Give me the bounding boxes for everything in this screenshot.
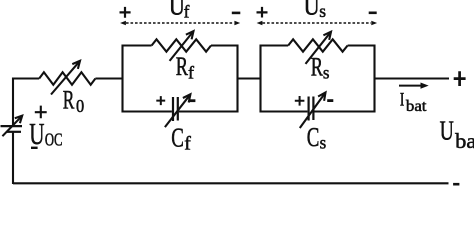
plus sign Us (257, 7, 268, 18)
plus sign Uoc (35, 106, 47, 119)
current arrow Ibat (399, 85, 424, 87)
wire: main horizontal left segment (13, 77, 39, 79)
svg-text:OC: OC (45, 129, 63, 149)
svg-text:C: C (307, 122, 320, 152)
plus sign Cs (295, 96, 305, 106)
svg-text:f: f (184, 134, 191, 155)
capacitor Cs plates (309, 97, 314, 121)
node: box1 frame (Rf/Cf parallel) (123, 46, 238, 112)
svg-text:f: f (188, 62, 194, 82)
plus sign output (454, 71, 466, 86)
svg-text:f: f (184, 1, 190, 21)
svg-text:U: U (304, 0, 320, 20)
svg-text:R: R (176, 52, 189, 81)
svg-text:I: I (400, 90, 404, 111)
minus sign Uf (232, 12, 241, 15)
svg-text:bat: bat (455, 129, 474, 153)
svg-text:s: s (320, 133, 327, 153)
minus sign Us (369, 12, 377, 15)
svg-text:C: C (171, 123, 184, 153)
node: box2 frame (Rs/Cs parallel) (261, 46, 375, 112)
source Uoc plate short (7, 131, 21, 133)
minus sign bottom right (453, 183, 459, 186)
capacitor Cf variable arrow (165, 94, 191, 127)
svg-text:bat: bat (406, 98, 427, 115)
wire: R0 to box1 (95, 77, 123, 79)
wire: box2 to output (375, 77, 450, 79)
dashed voltage arrow Us (263, 22, 372, 24)
svg-text:s: s (323, 63, 330, 83)
dashed voltage arrow Uf (126, 22, 234, 24)
resistor R0 variable arrow (51, 61, 80, 95)
resistor Rs variable arrow (306, 32, 332, 64)
svg-text:R: R (63, 85, 75, 114)
plus sign Cf (156, 96, 165, 105)
plus sign Uf (120, 7, 131, 18)
svg-text:R: R (311, 52, 324, 81)
source Uoc plate long (1, 125, 23, 127)
resistor R0 zigzag (39, 72, 95, 84)
svg-text:s: s (319, 1, 326, 21)
svg-text:U: U (29, 116, 44, 151)
minus sign Cf (189, 99, 195, 102)
resistor Rs zigzag (288, 39, 347, 51)
wire: left vertical branch (12, 78, 14, 126)
source Uoc variable arrow (2, 116, 22, 137)
capacitor Cf plates (173, 97, 178, 121)
minus sign Uoc (31, 147, 38, 149)
svg-text:U: U (440, 115, 454, 146)
minus sign Cs (327, 99, 333, 102)
wire: box1 to box2 (238, 77, 261, 79)
svg-text:0: 0 (76, 96, 84, 116)
svg-text:U: U (169, 0, 185, 20)
capacitor Cs variable arrow (300, 93, 326, 129)
resistor Rf variable arrow (170, 31, 194, 61)
wire: bottom return (13, 182, 449, 184)
resistor Rf zigzag (152, 39, 211, 51)
